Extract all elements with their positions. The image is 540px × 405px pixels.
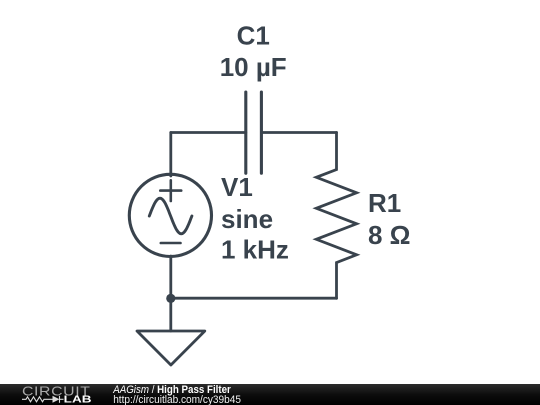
svg-text:1 kHz: 1 kHz [221,234,289,264]
svg-text:V1: V1 [221,172,253,202]
footer url text [113,395,241,405]
labels [220,20,411,264]
svg-text:http://circuitlab.com/cy39b45: http://circuitlab.com/cy39b45 [113,395,241,405]
footer title text [112,385,231,397]
voltage source V1 [129,174,211,256]
node junction dot [166,294,175,303]
capacitor C1 [246,92,262,173]
svg-text:sine: sine [221,204,273,234]
svg-text:C1: C1 [237,20,270,50]
wire top-left horizontal [171,131,246,134]
footer logo resistor squiggle + diode [22,396,64,403]
svg-text:10 µF: 10 µF [220,52,287,82]
svg-text:LAB: LAB [64,395,92,405]
wire top-right horizontal [261,131,336,134]
wire bottom horizontal [171,297,337,300]
footer logo CIRCUIT [22,383,92,405]
resistor R1 [316,133,356,299]
wire left vertical (top corner to V1 top) [169,133,172,177]
svg-text:R1: R1 [368,188,401,218]
wire left vertical (V1 bottom to bottom wire) [169,256,172,298]
footer bar [0,384,540,405]
ground [137,298,205,365]
svg-text:8 Ω: 8 Ω [368,220,411,250]
